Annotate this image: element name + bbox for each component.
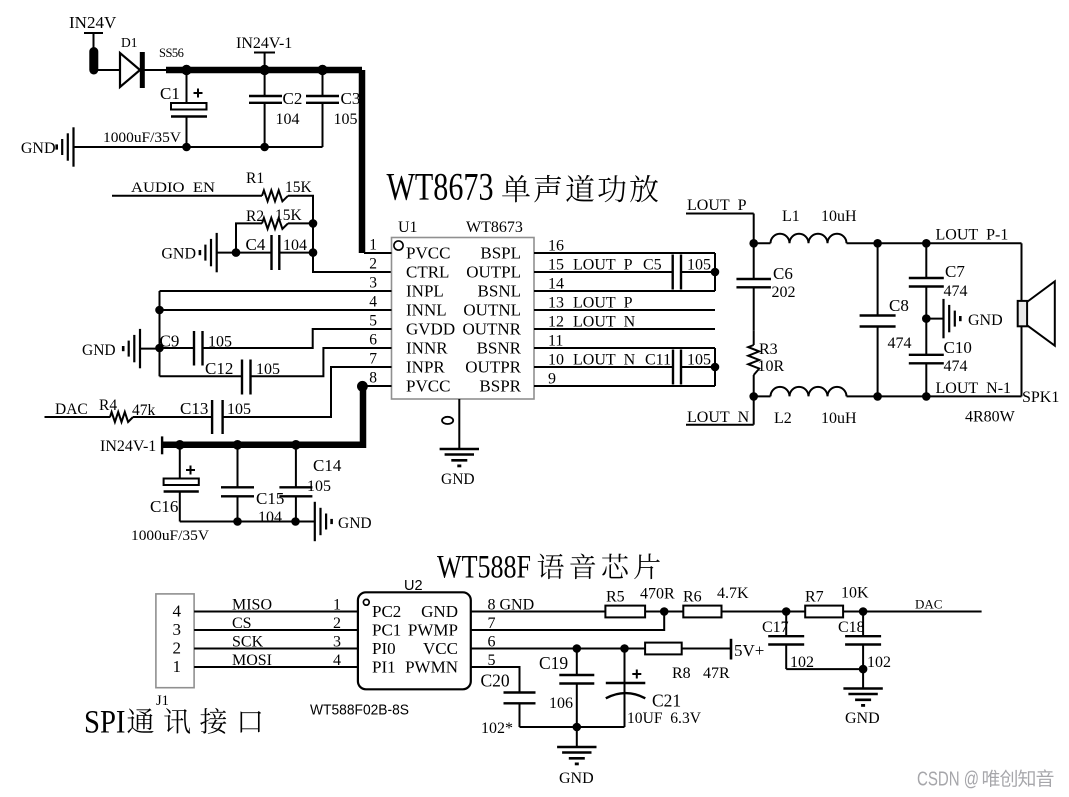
U1 pin16 wire BSPL (534, 252, 715, 254)
svg-text:PC1: PC1 (372, 621, 401, 640)
capacitor C4 (236, 235, 313, 270)
wire pin6 VCC (471, 648, 645, 650)
ic U2 WT588F chip body (358, 592, 471, 689)
svg-text:3: 3 (173, 620, 182, 639)
svg-text:C2: C2 (283, 89, 303, 108)
inductor L2 (771, 387, 847, 397)
wire INPL pin3 (160, 290, 392, 292)
wire R6 to R7 (722, 611, 806, 613)
junction (620, 644, 629, 653)
svg-text:4: 4 (333, 652, 341, 669)
resistor R3 (748, 345, 759, 375)
wire pin5 PWMN (471, 667, 520, 692)
ground GND top-left (21, 127, 74, 166)
junction (182, 143, 191, 152)
wire R1 to node (288, 196, 392, 272)
svg-text:C9: C9 (160, 332, 180, 351)
svg-text:L1: L1 (782, 208, 800, 225)
wire R5 to R6 (645, 611, 683, 613)
capacitor C13 (211, 400, 213, 434)
capacitor C12 (160, 360, 251, 395)
svg-text:8: 8 (369, 370, 377, 387)
resistor R4 (110, 412, 133, 422)
op-amp U1 WT8673 chip body (392, 238, 535, 400)
svg-text:9: 9 (548, 371, 556, 388)
wire diode to bus (143, 69, 170, 71)
svg-text:102: 102 (867, 654, 891, 671)
svg-text:474: 474 (888, 335, 912, 352)
svg-text:GND: GND (968, 312, 1003, 329)
capacitor C18 (845, 612, 881, 670)
svg-text:10K: 10K (841, 585, 869, 602)
capacitor C14 (279, 445, 312, 522)
U1 pin14 wire BSNL (534, 290, 715, 292)
label 0 rotated (442, 417, 453, 424)
resistor R7 (805, 606, 843, 618)
svg-text:10uH: 10uH (821, 208, 857, 225)
svg-text:OUTPR: OUTPR (465, 358, 521, 377)
wire to GND (926, 318, 943, 320)
capacitor C3 (306, 70, 339, 147)
svg-text:47R: 47R (703, 665, 730, 682)
svg-text:R5: R5 (606, 589, 625, 606)
label C21 plus (632, 673, 641, 675)
svg-text:INNL: INNL (406, 301, 447, 320)
svg-text:6: 6 (369, 332, 377, 349)
capacitor C8 (860, 243, 896, 396)
ground GND under C19 (557, 727, 596, 787)
junction (922, 239, 931, 248)
junction (922, 314, 931, 323)
svg-text:1: 1 (333, 596, 341, 613)
svg-text:C5: C5 (643, 257, 662, 274)
svg-text:106: 106 (549, 695, 573, 712)
svg-text:1: 1 (369, 237, 377, 254)
wire C20 gnd rail (520, 726, 625, 728)
svg-text:1000uF/35V: 1000uF/35V (103, 130, 182, 146)
junction (309, 248, 318, 257)
ground GND below U1 (440, 449, 479, 488)
resistor R1 (262, 190, 288, 201)
wire R2 right (288, 222, 313, 224)
wire MISO (194, 611, 358, 613)
junction (291, 517, 300, 526)
connector pin IN24V blob (89, 47, 98, 75)
svg-text:6: 6 (488, 634, 496, 651)
svg-text:GND: GND (21, 140, 56, 157)
svg-text:IN24V-1: IN24V-1 (100, 438, 156, 455)
speaker SPK1 (1018, 281, 1055, 345)
U1 pin10 wire OUTPR (534, 366, 673, 368)
svg-text:PVCC: PVCC (406, 244, 450, 263)
svg-text:BSNR: BSNR (477, 339, 522, 358)
svg-text:104: 104 (283, 237, 307, 254)
wire R4 to C13 (133, 416, 212, 418)
wire C12 to INNR pin6 (251, 348, 392, 376)
wire bottom rail (180, 521, 315, 523)
junction (181, 65, 191, 75)
wire GND to node (140, 348, 160, 350)
svg-text:13: 13 (548, 295, 564, 312)
net label LOUT_P (686, 197, 754, 243)
svg-text:105: 105 (227, 401, 251, 418)
svg-text:SCK: SCK (232, 633, 264, 650)
svg-text:R8: R8 (672, 665, 691, 682)
capacitor C11 (672, 350, 674, 385)
svg-text:7: 7 (369, 351, 377, 368)
svg-text:15K: 15K (275, 207, 303, 224)
junction (232, 248, 241, 257)
junction (155, 306, 164, 315)
U1 pin12 wire LOUT_N (534, 328, 715, 330)
capacitor C6 (736, 243, 771, 330)
svg-text:C18: C18 (838, 619, 865, 636)
thick wire IN24V-1 rail (162, 389, 363, 445)
capacitor C19 (559, 649, 594, 728)
wire MOSI (194, 666, 358, 668)
net label IN24V-1 bottom (100, 436, 162, 455)
svg-text:CSDN @: CSDN @ (917, 769, 979, 791)
svg-text:PWMP: PWMP (408, 621, 458, 640)
svg-text:PC2: PC2 (372, 602, 401, 621)
wire DAC (45, 416, 111, 418)
svg-text:R4: R4 (99, 397, 117, 414)
net label LOUT_N (686, 396, 754, 426)
wire C5 to node (681, 271, 715, 273)
junction (233, 440, 243, 450)
svg-text:DAC: DAC (915, 597, 942, 612)
svg-text:14: 14 (548, 276, 564, 293)
svg-text:C10: C10 (944, 338, 972, 357)
svg-text:WT8673: WT8673 (387, 166, 494, 209)
svg-text:105: 105 (687, 352, 711, 369)
wire GND rail (74, 146, 323, 148)
wire CS (194, 629, 358, 631)
svg-text:INPR: INPR (406, 358, 445, 377)
junction (260, 143, 269, 152)
svg-text:GND: GND (441, 471, 475, 488)
junction (749, 392, 758, 401)
wire pin8 GND net (471, 611, 606, 613)
svg-text:C20: C20 (481, 671, 510, 691)
wire R3 bottom (753, 375, 755, 396)
junction (859, 665, 868, 674)
svg-text:IN24V: IN24V (69, 13, 117, 32)
svg-text:4: 4 (173, 602, 182, 621)
svg-text:PI1: PI1 (372, 658, 396, 677)
wire R8 to 5V+ (682, 648, 731, 650)
wire INNL pin4 (160, 309, 392, 311)
svg-text:202: 202 (772, 284, 796, 301)
svg-text:IN24V-1: IN24V-1 (236, 35, 292, 52)
ground GND at C4 (161, 233, 216, 272)
thick bus wire IN24V-1 top (166, 67, 362, 74)
inductor L1 (771, 234, 847, 244)
svg-text:GND: GND (161, 246, 196, 263)
svg-text:BSPR: BSPR (479, 377, 521, 396)
svg-text:C19: C19 (539, 653, 568, 673)
wire C13 to INPR pin7 (223, 367, 392, 417)
junction (711, 268, 720, 277)
svg-text:PVCC: PVCC (406, 377, 450, 396)
connector J1 (156, 594, 194, 688)
wire L1 lead (754, 242, 771, 244)
svg-text:104: 104 (258, 509, 282, 526)
svg-text:3: 3 (333, 633, 341, 650)
label C1 plus (194, 92, 203, 94)
wire L2 to LOUT_N-1 (847, 395, 1022, 397)
svg-text:5: 5 (369, 313, 377, 330)
junction (660, 607, 669, 616)
svg-text:C15: C15 (256, 489, 284, 508)
U1 ground pin stub (458, 399, 460, 449)
wire C11 to node (681, 366, 715, 368)
U1 pin9 wire BSPR (534, 385, 715, 387)
capacitor C2 (249, 70, 282, 147)
junction (233, 517, 242, 526)
svg-text:U1: U1 (398, 219, 418, 236)
capacitor C21 electrolytic (606, 649, 646, 728)
svg-text:C1: C1 (160, 84, 180, 103)
svg-text:5: 5 (488, 652, 496, 669)
svg-text:C16: C16 (150, 497, 178, 516)
U1 pin11 wire BSNR (534, 347, 715, 349)
U1 pin1 wire (364, 252, 392, 254)
svg-text:R6: R6 (683, 589, 702, 606)
svg-text:2: 2 (369, 256, 377, 273)
svg-text:1: 1 (173, 657, 182, 676)
U1 pin8 wire (362, 385, 391, 387)
svg-text:WT588F: WT588F (437, 550, 531, 586)
wire R7 to DAC (843, 611, 982, 613)
svg-text:MOSI: MOSI (232, 652, 272, 669)
svg-text:10: 10 (548, 352, 564, 369)
svg-text:104: 104 (276, 111, 300, 128)
ground GND under C18 (843, 669, 882, 727)
svg-text:GND: GND (559, 770, 594, 787)
svg-text:SPK1: SPK1 (1022, 389, 1059, 406)
svg-text:C21: C21 (652, 691, 681, 711)
wire speaker top (1021, 243, 1023, 301)
svg-text:J1: J1 (156, 693, 169, 709)
junction (573, 723, 582, 732)
svg-text:12: 12 (548, 314, 564, 331)
net label IN24V-1 top (236, 35, 292, 70)
svg-text:C11: C11 (645, 352, 671, 369)
resistor R2 (262, 218, 288, 229)
svg-text:DAC: DAC (55, 401, 88, 418)
wire R2 left (236, 223, 262, 252)
svg-text:LOUT P: LOUT P (687, 197, 747, 214)
svg-text:SPI: SPI (84, 704, 126, 740)
svg-text:LOUT N-1: LOUT N-1 (936, 380, 1012, 397)
svg-text:BSPL: BSPL (480, 244, 521, 263)
svg-text:11: 11 (548, 333, 563, 350)
svg-text:VCC: VCC (423, 639, 458, 658)
svg-text:10R: 10R (758, 358, 785, 375)
svg-text:GVDD: GVDD (406, 320, 455, 339)
junction (259, 65, 269, 75)
svg-text:PWMN: PWMN (405, 658, 458, 677)
svg-text:4R80W: 4R80W (965, 409, 1016, 426)
junction (175, 440, 185, 450)
svg-text:WT8673: WT8673 (466, 219, 523, 236)
svg-text:SS56: SS56 (159, 46, 184, 60)
svg-text:102*: 102* (481, 720, 513, 737)
capacitor C17 (768, 612, 804, 670)
svg-text:OUTNR: OUTNR (462, 320, 521, 339)
svg-text:2: 2 (333, 615, 341, 632)
junction (922, 392, 931, 401)
svg-text:2: 2 (173, 639, 182, 658)
ground GND right of C14 (315, 502, 372, 541)
U1 pin13 wire LOUT_P (534, 309, 715, 311)
net label IN24V (69, 13, 117, 48)
svg-text:C8: C8 (889, 296, 909, 315)
svg-text:R1: R1 (246, 170, 264, 187)
svg-text:LOUT N: LOUT N (573, 314, 636, 331)
capacitor C1 electrolytic (171, 70, 207, 147)
svg-text:C4: C4 (246, 235, 266, 254)
svg-text:GND: GND (82, 342, 116, 359)
svg-text:GND: GND (338, 515, 372, 532)
svg-text:WT588F02B-8S: WT588F02B-8S (310, 702, 409, 719)
junction (711, 363, 720, 372)
svg-text:LOUT N: LOUT N (687, 409, 750, 426)
svg-text:R7: R7 (805, 589, 824, 606)
junction big pin8 (357, 381, 368, 392)
capacitor C16 electrolytic (164, 445, 199, 522)
svg-text:15: 15 (548, 257, 564, 274)
svg-text:4.7K: 4.7K (717, 585, 749, 602)
svg-text:8 GND: 8 GND (488, 597, 535, 614)
U1 pin15 wire OUTPL (534, 271, 673, 273)
svg-text:1000uF/35V: 1000uF/35V (131, 528, 210, 544)
wire AUDIO_EN (112, 195, 262, 197)
resistor R6 (683, 606, 721, 618)
junction (749, 239, 758, 248)
svg-text:3: 3 (369, 275, 377, 292)
wire SCK (194, 648, 358, 650)
wire L2 lead (754, 395, 771, 397)
power 5V+ tick (730, 639, 733, 660)
svg-text:10UF 6.3V: 10UF 6.3V (627, 710, 701, 727)
junction (291, 440, 301, 450)
diode D1 (120, 52, 142, 88)
svg-text:AUDIO EN: AUDIO EN (131, 180, 216, 196)
capacitor C20 (504, 693, 536, 728)
svg-text:7: 7 (488, 615, 496, 632)
svg-text:LOUT P: LOUT P (573, 257, 633, 274)
svg-text:C12: C12 (205, 359, 233, 378)
wire (94, 69, 120, 71)
label C16 plus (186, 469, 195, 471)
svg-text:LOUT N: LOUT N (573, 352, 636, 369)
svg-text:10uH: 10uH (821, 410, 857, 427)
junction (155, 344, 164, 353)
svg-text:105: 105 (687, 257, 711, 274)
junction (309, 219, 318, 228)
svg-text:MISO: MISO (232, 596, 272, 613)
svg-text:C6: C6 (773, 264, 793, 283)
svg-text:470R: 470R (640, 586, 675, 603)
junction (782, 607, 791, 616)
junction (573, 644, 582, 653)
wire bootstrap L vertical (714, 253, 716, 291)
svg-text:L2: L2 (774, 410, 792, 427)
svg-text:CS: CS (232, 615, 252, 632)
svg-text:D1: D1 (121, 35, 138, 50)
svg-text:474: 474 (944, 358, 968, 375)
svg-text:LOUT P: LOUT P (573, 295, 633, 312)
svg-text:PI0: PI0 (372, 639, 396, 658)
svg-text:LOUT P-1: LOUT P-1 (936, 227, 1009, 244)
svg-text:C14: C14 (313, 456, 342, 475)
svg-text:OUTNL: OUTNL (463, 301, 521, 320)
svg-text:R2: R2 (246, 208, 264, 225)
junction (859, 607, 868, 616)
wire L1 to LOUT_P-1 (847, 242, 1022, 244)
svg-text:474: 474 (944, 283, 968, 300)
resistor R8 (645, 643, 682, 655)
svg-text:R3: R3 (759, 341, 778, 358)
svg-text:CTRL: CTRL (406, 263, 449, 282)
capacitor C5 (672, 255, 674, 290)
svg-text:C7: C7 (945, 262, 965, 281)
wire pin7 PWMP (471, 612, 664, 631)
junction (873, 239, 882, 248)
capacitor C9 (160, 331, 203, 366)
capacitor C7 (909, 243, 944, 318)
ground GND mid filter (944, 299, 961, 338)
capacitor C10 (909, 319, 944, 397)
svg-text:GND: GND (421, 602, 458, 621)
U2 pin1 circle (363, 599, 369, 605)
svg-text:105: 105 (307, 478, 331, 495)
wire C17 C18 gnd rail (786, 668, 863, 670)
svg-text:OUTPL: OUTPL (466, 263, 521, 282)
svg-text:BSNL: BSNL (478, 282, 521, 301)
svg-text:16: 16 (548, 238, 564, 255)
svg-text:C3: C3 (341, 89, 361, 108)
wire C9 to GVDD pin5 (203, 329, 392, 348)
svg-text:C17: C17 (762, 619, 789, 636)
svg-text:C13: C13 (180, 399, 208, 418)
svg-text:4: 4 (369, 294, 377, 311)
svg-text:105: 105 (334, 111, 358, 128)
junction (317, 65, 327, 75)
wire input common vertical (159, 291, 161, 376)
svg-text:GND: GND (845, 710, 880, 727)
ground GND at C9 (82, 329, 140, 368)
wire (217, 252, 236, 254)
svg-text:INPL: INPL (406, 282, 444, 301)
U1 pin1 circle (394, 241, 403, 250)
resistor R5 (605, 606, 645, 618)
wire R3 top (753, 330, 755, 345)
svg-text:15K: 15K (285, 179, 313, 196)
svg-text:INNR: INNR (406, 339, 448, 358)
junction (873, 392, 882, 401)
svg-text:5V+: 5V+ (734, 641, 764, 660)
capacitor C15 (221, 445, 254, 522)
wire bootstrap R vertical (714, 348, 716, 386)
svg-text:U2: U2 (404, 578, 423, 594)
wire speaker bottom (1021, 326, 1023, 396)
